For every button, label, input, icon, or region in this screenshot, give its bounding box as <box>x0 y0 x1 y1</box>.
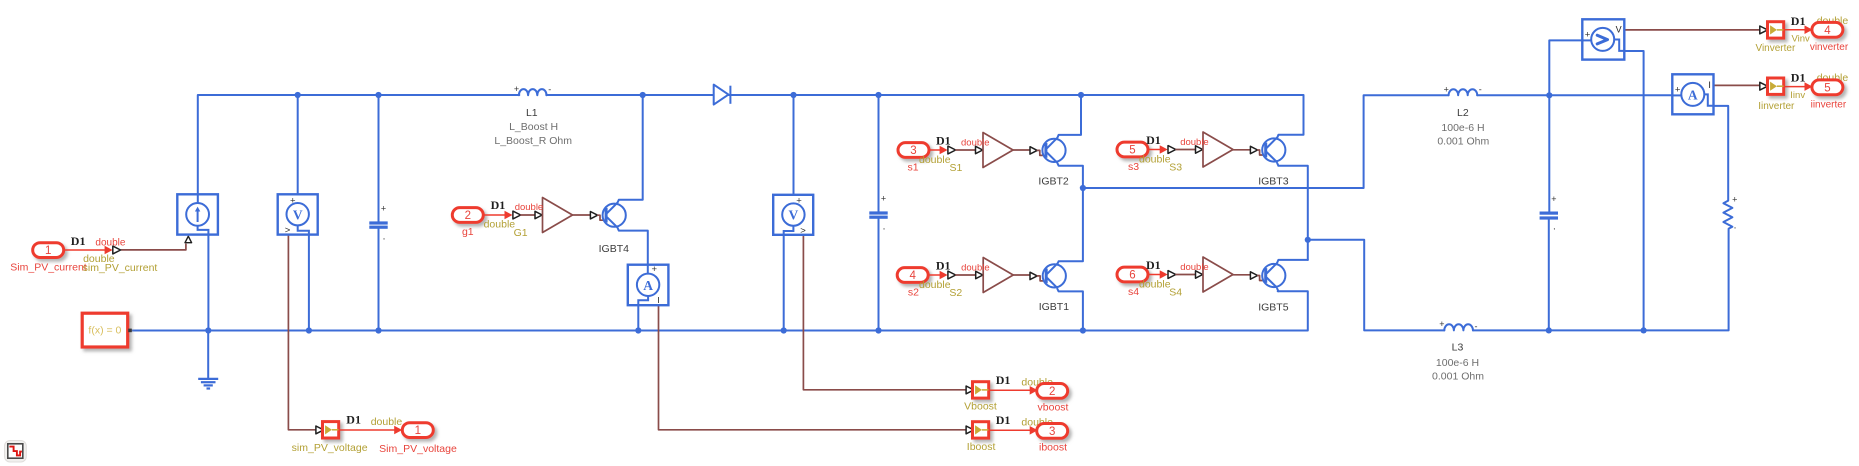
wire S4 to IGBT5 gate <box>1233 274 1251 276</box>
model hierarchy corner icon <box>5 441 27 463</box>
label double (olive) port 6 <box>1139 278 1171 290</box>
wire capacitor C2 branch top <box>878 95 880 211</box>
svg-text:S1: S1 <box>949 162 962 174</box>
svg-text:V: V <box>789 208 799 223</box>
wire port 1 to converter <box>64 246 113 255</box>
wire Vsensor minus drop <box>1624 51 1643 330</box>
svg-text:+: + <box>514 84 519 94</box>
converter g1 marker <box>513 211 521 219</box>
svg-text:Iinv: Iinv <box>1790 90 1805 101</box>
capacitor C2 plates <box>869 211 887 218</box>
wire capacitor C1 branch top <box>378 95 380 221</box>
svg-text:L_Boost_R Ohm: L_Boost_R Ohm <box>494 135 572 147</box>
resistor R load <box>1723 201 1732 229</box>
wire sim_PV_current signal <box>121 244 185 250</box>
inductor L1 polarity <box>514 84 551 94</box>
label S1 <box>949 162 962 174</box>
svg-text:double: double <box>1180 137 1209 148</box>
wire port 5 to converter <box>1148 145 1168 154</box>
current source PV block <box>177 194 218 234</box>
junction top rail / V2 <box>790 92 796 98</box>
converter Iboost marker <box>966 426 974 434</box>
inductor L1 value Ohm <box>494 135 572 147</box>
label double sim_PV_voltage <box>371 416 403 428</box>
label D1 port 5 <box>1146 133 1161 147</box>
svg-text:3: 3 <box>1049 426 1055 438</box>
wire S2 to IGBT1 gate <box>1013 274 1030 276</box>
svg-text:g1: g1 <box>462 226 474 238</box>
svg-text:D1: D1 <box>346 413 361 427</box>
transistor IGBT3 symbol <box>1262 137 1285 162</box>
transistor IGBT5 gate port marker <box>1250 272 1257 279</box>
converter S1 triangle <box>983 133 1013 168</box>
wire Iinv sensor signal to Iinverter <box>1714 84 1760 86</box>
converter S2 input marker <box>976 271 983 278</box>
wire IGBT2 collector to rail <box>1057 95 1081 138</box>
ground symbol <box>198 379 218 389</box>
svg-text:>: > <box>800 225 806 236</box>
wire capacitor C2 branch bottom <box>878 219 880 331</box>
capacitor C2 polarity marks <box>881 193 886 236</box>
wire port 2 to converter <box>483 211 512 220</box>
capacitor C1 polarity marks <box>381 203 386 246</box>
svg-text:2: 2 <box>1049 386 1055 398</box>
transistor IGBT4 label <box>599 243 630 255</box>
output port 4 <box>1812 22 1843 37</box>
svg-text:+: + <box>290 195 296 206</box>
svg-text:sim_PV_current: sim_PV_current <box>83 262 158 274</box>
svg-text:V: V <box>293 207 303 222</box>
converter Vinverter block <box>1768 22 1784 38</box>
label double (olive) port 3 <box>919 154 951 166</box>
converter G1 input marker <box>535 211 542 218</box>
transistor IGBT3 label <box>1258 176 1289 188</box>
converter sim_PV_voltage block <box>323 422 339 438</box>
svg-text:sim_PV_voltage: sim_PV_voltage <box>292 442 368 454</box>
svg-text:+: + <box>1439 319 1444 329</box>
wire current source bottom <box>207 235 209 331</box>
svg-text:+: + <box>881 193 886 203</box>
svg-text:s4: s4 <box>1128 286 1139 298</box>
svg-text:D1: D1 <box>936 258 951 272</box>
wire load node down to C3 <box>1548 95 1550 211</box>
svg-text:L_Boost H: L_Boost H <box>509 121 558 133</box>
wire IGBT4 collector to rail <box>618 95 643 203</box>
svg-text:+: + <box>1675 84 1681 95</box>
svg-text:A: A <box>1688 88 1698 103</box>
label vinverter <box>1810 42 1849 53</box>
svg-text:Vboost: Vboost <box>964 400 997 412</box>
svg-text:D1: D1 <box>1146 133 1161 147</box>
svg-text:+: + <box>381 203 386 213</box>
label double Iinverter <box>1817 72 1849 84</box>
junction load bottom / C3 <box>1546 327 1552 333</box>
inductor L1 label <box>526 107 538 119</box>
svg-text:4: 4 <box>909 270 916 282</box>
wire IGBT3 emitter to leg <box>1277 163 1308 260</box>
label D1 Vinverter <box>1791 14 1806 28</box>
wire C3 bottom <box>1548 219 1550 331</box>
svg-text:L1: L1 <box>526 107 538 119</box>
output port 2 <box>1037 384 1068 399</box>
junction top rail / V1 <box>295 92 301 98</box>
transistor IGBT2 label <box>1038 176 1069 188</box>
svg-text:IGBT4: IGBT4 <box>599 243 630 255</box>
converter S2 triangle <box>983 258 1013 293</box>
wire node A to L2 <box>1083 95 1449 188</box>
svg-text:iboost: iboost <box>1039 441 1067 453</box>
label D1 Vboost <box>996 373 1011 387</box>
svg-text:double: double <box>961 262 990 273</box>
svg-text:double: double <box>1180 262 1209 273</box>
svg-text:Sim_PV_voltage: Sim_PV_voltage <box>379 443 457 455</box>
svg-text:I: I <box>657 295 659 305</box>
svg-text:double: double <box>961 137 990 148</box>
svg-text:+: + <box>652 264 658 275</box>
svg-text:-: - <box>1475 322 1478 332</box>
label s2 <box>908 286 919 298</box>
svg-text:+: + <box>1585 30 1591 41</box>
input port 1 <box>33 243 64 258</box>
label iinverter <box>1811 100 1847 111</box>
svg-text:G1: G1 <box>514 227 528 239</box>
inductor L3 value Ohm <box>1432 370 1484 382</box>
label sim_PV_voltage <box>292 442 368 454</box>
svg-text:1: 1 <box>415 425 421 437</box>
svg-text:s1: s1 <box>907 161 918 173</box>
diode D <box>714 85 731 105</box>
label D1 sim_PV_voltage <box>346 413 361 427</box>
converter Vboost block <box>973 382 989 398</box>
wire Asensor to resistor <box>1714 106 1729 201</box>
svg-text:5: 5 <box>1824 82 1830 94</box>
wire V1 minus drop <box>308 235 310 331</box>
converter S3 input marker <box>1196 146 1203 153</box>
inductor L1 coil <box>519 89 547 95</box>
junction bottom rail / ground <box>205 327 211 333</box>
label S4 <box>1169 287 1182 299</box>
wire IGBT3 collector stub <box>1277 135 1278 138</box>
wire s3 to S3 <box>1176 149 1195 151</box>
wire S1 to IGBT2 gate <box>1013 149 1030 151</box>
junction top rail / IGBT2 <box>1078 92 1084 98</box>
converter S4 triangle <box>1203 257 1233 292</box>
junction load node top <box>1546 92 1552 98</box>
converter Vinverter marker <box>1760 26 1768 34</box>
svg-text:double: double <box>371 416 403 428</box>
wire s4 to S4 <box>1176 274 1195 276</box>
svg-text:+: + <box>1551 194 1556 204</box>
junction top rail / IGBT4 <box>640 92 646 98</box>
label Iinverter <box>1758 101 1795 112</box>
svg-text:S4: S4 <box>1169 287 1182 299</box>
converter S3 triangle <box>1203 132 1233 167</box>
wire S3 to IGBT3 gate <box>1233 149 1251 151</box>
junction bottom rail / V2- <box>781 327 787 333</box>
capacitor C1 plates <box>369 221 387 228</box>
svg-text:double: double <box>919 279 951 291</box>
wire DC- bottom rail <box>132 291 1308 330</box>
converter G1 triangle <box>543 198 573 233</box>
wire IGBT5 collector stub <box>1277 260 1308 263</box>
wire A1 measurement signal to Iboost <box>659 305 967 430</box>
label iboost <box>1039 441 1067 453</box>
label D1 Iboost <box>996 413 1011 427</box>
svg-text:2: 2 <box>465 210 471 222</box>
converter s2 marker <box>948 271 956 279</box>
voltage sensor Vinv block <box>1582 19 1624 59</box>
transistor IGBT5 label <box>1258 301 1289 313</box>
label sim_PV_current <box>83 262 158 274</box>
input port 2 <box>452 208 483 223</box>
inductor L3 label <box>1452 342 1464 354</box>
output port 3 <box>1037 424 1068 439</box>
label s1 <box>907 161 918 173</box>
label D1 port 3 <box>936 133 951 147</box>
wire IGBT1 collector to node A <box>1057 188 1083 264</box>
svg-text:IGBT2: IGBT2 <box>1038 176 1069 188</box>
svg-text:IGBT1: IGBT1 <box>1039 301 1070 313</box>
transistor IGBT3 gate port marker <box>1250 146 1257 153</box>
wire port 6 to converter <box>1148 270 1168 279</box>
converter Iinverter marker <box>1760 82 1768 90</box>
svg-text:D1: D1 <box>996 373 1011 387</box>
svg-text:0.001 Ohm: 0.001 Ohm <box>1437 136 1489 148</box>
svg-text:iinverter: iinverter <box>1811 100 1847 111</box>
transistor IGBT4 gate port marker <box>590 212 597 219</box>
svg-text:I: I <box>1708 80 1711 90</box>
junction bottom rail / A1 <box>635 327 641 333</box>
svg-text:s2: s2 <box>908 286 919 298</box>
wire L2 to load node <box>1477 94 1672 96</box>
label s4 <box>1128 286 1139 298</box>
junction bottom rail / C1 <box>375 327 381 333</box>
wire V1 top drop <box>297 95 299 203</box>
label S2 <box>949 287 962 299</box>
wire IGBT2 gate stub <box>1037 150 1045 155</box>
label double (red) port 5 <box>1180 137 1209 148</box>
inductor L3 polarity <box>1439 319 1477 331</box>
wire V2 measurement signal to Vboost <box>803 235 966 390</box>
wire IGBT5 emitter stub <box>1277 289 1278 292</box>
svg-text:double: double <box>919 154 951 166</box>
wire DC+ top rail right of L1 <box>546 95 1303 135</box>
wire node B to L3 <box>1308 240 1445 331</box>
label g1 <box>462 226 474 238</box>
label double (red) port 3 <box>961 137 990 148</box>
label double (olive) port 1 <box>83 253 115 265</box>
svg-text:+: + <box>1444 84 1449 94</box>
wire V2 minus drop <box>783 235 785 331</box>
transistor IGBT2 gate port marker <box>1030 147 1037 154</box>
svg-text:vinverter: vinverter <box>1810 42 1849 53</box>
wire g1 to G1 <box>521 214 536 216</box>
converter s1 marker <box>948 146 956 154</box>
label double (olive) port 2 <box>484 218 516 230</box>
svg-text:D1: D1 <box>1146 258 1161 272</box>
svg-text:>: > <box>285 225 291 236</box>
input port 3 <box>898 143 929 158</box>
current sensor Iinv block <box>1672 74 1713 114</box>
transistor IGBT1 gate port marker <box>1030 272 1037 279</box>
label double (red) port 1 <box>95 237 125 248</box>
ammeter A1 block <box>628 264 669 305</box>
transistor IGBT5 symbol <box>1262 263 1285 288</box>
node B junction <box>1305 237 1311 243</box>
svg-text:-: - <box>1479 85 1482 95</box>
inductor L2 coil <box>1449 89 1478 95</box>
svg-text:IGBT5: IGBT5 <box>1258 301 1289 313</box>
wire G1 to IGBT4 gate <box>573 214 591 216</box>
svg-text:Vinverter: Vinverter <box>1755 43 1796 54</box>
junction bottom rail / V1- <box>306 327 312 333</box>
label Sim_PV_current <box>10 262 87 274</box>
wire s2 to S2 <box>956 274 976 276</box>
label Vinverter <box>1755 43 1796 54</box>
wire Iboost to port <box>989 426 1038 435</box>
svg-text:+: + <box>796 196 802 207</box>
input port 4 <box>897 268 928 283</box>
inductor L2 label <box>1457 107 1469 119</box>
converter S4 input marker <box>1196 271 1203 278</box>
transistor IGBT2 symbol <box>1042 138 1065 163</box>
current source control port marker <box>185 236 192 243</box>
svg-text:double: double <box>484 218 516 230</box>
input port 6 <box>1117 267 1148 282</box>
svg-text:D1: D1 <box>996 413 1011 427</box>
svg-text:6: 6 <box>1129 270 1135 282</box>
svg-text:5: 5 <box>1129 145 1135 157</box>
svg-text:Iboost: Iboost <box>967 441 996 453</box>
voltmeter V1 block <box>278 194 318 236</box>
wire IGBT1 emitter to DC- rail <box>1057 289 1083 331</box>
label s3 <box>1128 161 1139 173</box>
junction bottom rail / IGBT1 <box>1080 327 1086 333</box>
label double (red) port 4 <box>961 262 990 273</box>
converter s3 marker <box>1168 146 1176 154</box>
converter sim_PV_current marker <box>113 246 121 254</box>
label D1 port 4 <box>936 258 951 272</box>
svg-text:+: + <box>1732 195 1737 205</box>
solver block f(x)=0 <box>82 313 132 347</box>
inductor L1 value H <box>509 121 558 133</box>
inductor L2 value H <box>1441 122 1484 134</box>
label D1 Iinverter <box>1791 70 1806 84</box>
svg-text:Sim_PV_current: Sim_PV_current <box>10 262 87 274</box>
label D1 port 2 <box>491 198 506 212</box>
svg-text:double: double <box>1139 153 1171 165</box>
wire IGBT5 gate stub <box>1258 276 1266 281</box>
input port 5 <box>1117 142 1148 157</box>
label double Vinverter <box>1817 15 1849 27</box>
converter Vboost marker <box>966 386 974 394</box>
node A junction <box>1080 185 1086 191</box>
svg-text:L2: L2 <box>1457 107 1469 119</box>
svg-text:1: 1 <box>45 245 51 257</box>
wire ammeter A1 bottom <box>637 305 639 330</box>
label double (red) port 6 <box>1180 262 1209 273</box>
label vboost <box>1038 401 1069 413</box>
svg-text:-: - <box>548 85 551 95</box>
wire V1 measurement signal <box>288 235 316 430</box>
svg-text:D1: D1 <box>491 198 506 212</box>
junction bottom rail / C2 <box>875 327 881 333</box>
label Iboost <box>967 441 996 453</box>
inductor L3 coil <box>1444 324 1473 330</box>
resistor R polarity <box>1732 195 1737 236</box>
label double (red) port 2 <box>515 202 544 213</box>
svg-text:D1: D1 <box>71 234 86 248</box>
label G1 <box>514 227 528 239</box>
wire Vinv sensor signal to Vinverter <box>1624 29 1760 31</box>
wire V2 top drop <box>793 95 795 204</box>
capacitor C3 polarity marks <box>1551 194 1556 236</box>
wire DC+ top rail left of L1 <box>198 95 520 194</box>
svg-text:double: double <box>95 237 125 248</box>
label D1 port 6 <box>1146 258 1161 272</box>
voltmeter V2 block <box>773 195 813 237</box>
inductor L2 polarity <box>1444 84 1482 94</box>
label double (olive) port 5 <box>1139 153 1171 165</box>
svg-text:IGBT3: IGBT3 <box>1258 176 1289 188</box>
label S3 <box>1169 162 1182 174</box>
wire IGBT2 emitter to node A <box>1057 163 1083 188</box>
svg-text:double: double <box>1139 278 1171 290</box>
inductor L3 value H <box>1436 357 1479 369</box>
wire L3 to resistor bottom <box>1473 229 1729 331</box>
transistor IGBT1 symbol <box>1043 263 1066 288</box>
svg-text:100e-6 H: 100e-6 H <box>1441 122 1484 134</box>
wire Vboost to port <box>989 386 1038 395</box>
svg-text:double: double <box>515 202 544 213</box>
svg-text:0.001 Ohm: 0.001 Ohm <box>1432 370 1484 382</box>
output port 1 <box>402 423 433 438</box>
transistor IGBT1 label <box>1039 301 1070 313</box>
capacitor C3 plates <box>1540 212 1558 220</box>
label Vboost <box>964 400 997 412</box>
junction top rail / C1 <box>375 92 381 98</box>
svg-text:S3: S3 <box>1169 162 1182 174</box>
label Vinv <box>1792 34 1811 45</box>
wire port 4 to converter <box>928 271 947 280</box>
label double (olive) port 4 <box>919 279 951 291</box>
svg-text:D1: D1 <box>936 133 951 147</box>
svg-text:100e-6 H: 100e-6 H <box>1436 357 1479 369</box>
converter s4 marker <box>1168 271 1176 279</box>
wire IGBT3 gate stub <box>1258 150 1266 155</box>
converter sim_PV_voltage marker <box>316 426 324 434</box>
wire IGBT4 emitter to A1 <box>618 228 648 265</box>
svg-text:s3: s3 <box>1128 161 1139 173</box>
svg-text:D1: D1 <box>1791 14 1806 28</box>
wire port 3 to converter <box>929 146 948 155</box>
wire ground stub <box>207 331 209 379</box>
wire IGBT4 gate stub <box>598 215 606 220</box>
wire capacitor C1 branch bottom <box>378 229 380 331</box>
wire Iinverter to port <box>1784 82 1813 91</box>
inductor L2 value Ohm <box>1437 136 1489 148</box>
svg-text:A: A <box>643 278 653 293</box>
label Sim_PV_voltage <box>379 443 457 455</box>
converter Iinverter block <box>1768 78 1784 94</box>
svg-text:Iinverter: Iinverter <box>1758 101 1795 112</box>
wire IGBT1 gate stub <box>1037 276 1046 281</box>
svg-text:3: 3 <box>910 145 916 157</box>
converter Iboost block <box>973 422 989 438</box>
svg-text:vboost: vboost <box>1038 401 1069 413</box>
transistor IGBT4 symbol <box>603 203 626 228</box>
label Iinv <box>1790 90 1805 101</box>
